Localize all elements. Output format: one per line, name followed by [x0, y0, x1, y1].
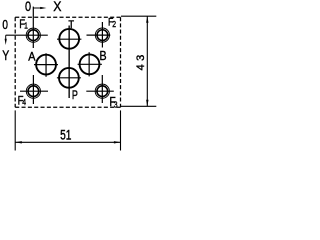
- vertical center line through T and P: [68, 26, 70, 99]
- X axis: [33, 7, 46, 9]
- svg-text:T: T: [68, 20, 74, 32]
- port A: [34, 53, 58, 77]
- dimension 43: [121, 16, 156, 106]
- svg-text:A: A: [28, 51, 36, 64]
- dimension 51: [15, 110, 120, 150]
- svg-text:3: 3: [114, 100, 118, 110]
- svg-text:1: 1: [24, 21, 28, 31]
- svg-text:4: 4: [22, 97, 26, 107]
- port B: [78, 52, 102, 76]
- fixing hole F1: [6, 7, 48, 48]
- svg-text:X: X: [53, 0, 61, 14]
- svg-text:B: B: [99, 49, 106, 63]
- svg-text:51: 51: [60, 127, 72, 143]
- Y axis: [5, 35, 7, 45]
- svg-text:0: 0: [2, 19, 8, 32]
- port T: [57, 29, 81, 49]
- svg-text:Y: Y: [2, 48, 9, 64]
- svg-text:0: 0: [25, 0, 31, 14]
- valve body outline (dashed rectangle): [15, 17, 120, 107]
- svg-text:2: 2: [112, 19, 116, 29]
- fixing hole F4: [20, 75, 48, 104]
- port P: [57, 68, 81, 88]
- svg-text:P: P: [72, 89, 78, 103]
- fixing hole F3: [86, 75, 114, 103]
- fixing hole F2: [87, 22, 111, 48]
- svg-text:43: 43: [135, 51, 147, 70]
